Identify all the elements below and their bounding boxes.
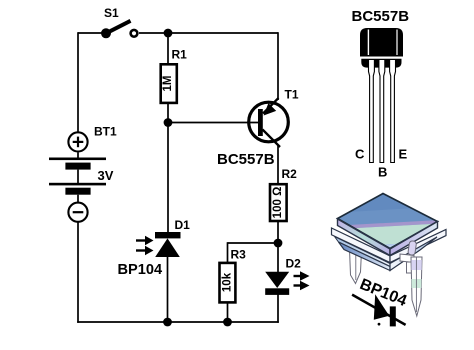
svg-text:10k: 10k <box>222 272 234 292</box>
node junction D1 bottom rail <box>163 318 172 327</box>
node junction R3 bottom rail <box>223 318 232 327</box>
svg-text:R3: R3 <box>231 248 247 262</box>
package leg B <box>379 60 385 163</box>
node junction R1 bottom <box>164 118 173 127</box>
node junction R1 top <box>164 29 173 38</box>
svg-text:T1: T1 <box>285 88 299 102</box>
photo right long leg <box>411 257 422 316</box>
wire left vertical upper <box>77 32 79 132</box>
wire node to D1 <box>167 123 169 233</box>
photodiode symbol on photo <box>352 294 406 326</box>
svg-text:D2: D2 <box>286 257 302 271</box>
wire R1 bottom to node <box>167 103 169 124</box>
resistor R2 <box>270 184 287 221</box>
photodiode D1 <box>136 232 181 257</box>
photo body frustum right <box>390 237 437 271</box>
svg-text:BC557B: BC557B <box>352 8 410 25</box>
svg-text:3V: 3V <box>98 168 114 183</box>
svg-text:BT1: BT1 <box>94 125 117 139</box>
svg-text:C: C <box>355 147 365 162</box>
svg-text:B: B <box>378 165 387 180</box>
LED D2 <box>265 271 309 295</box>
svg-text:1M: 1M <box>162 76 174 92</box>
photo left leg <box>350 249 362 284</box>
photo right stub <box>408 241 417 256</box>
package leg E <box>390 60 396 163</box>
svg-text:E: E <box>399 147 408 162</box>
switch S1 <box>101 21 137 39</box>
wire left vertical lower <box>77 223 79 323</box>
svg-text:R1: R1 <box>172 48 188 62</box>
wire node to R3 horizontal <box>228 242 279 244</box>
resistor R3 <box>220 263 236 303</box>
svg-text:BP104: BP104 <box>118 262 164 278</box>
wire R1 top <box>167 33 169 64</box>
battery BT1 <box>49 132 106 222</box>
wire emitter vertical <box>277 32 279 100</box>
photo rim right <box>390 229 446 262</box>
photo top face <box>330 194 450 263</box>
wire top rail left segment <box>78 32 106 34</box>
svg-text:100 Ω: 100 Ω <box>272 187 284 219</box>
transistor package TO-92 body <box>360 28 403 57</box>
photo right bracket <box>400 254 415 273</box>
wire node to D2 <box>277 243 279 273</box>
wire D1 to bottom rail <box>167 256 169 322</box>
svg-text:R2: R2 <box>282 167 298 181</box>
photo rim left <box>332 228 391 263</box>
node junction R2 bottom <box>274 239 283 248</box>
svg-text:S1: S1 <box>104 6 119 20</box>
wire R3 bottom <box>227 302 229 322</box>
wire base from node to T1 <box>168 122 258 124</box>
wire top rail right segment <box>139 32 278 34</box>
BP104 photo illustration <box>330 194 450 327</box>
svg-text:D1: D1 <box>175 218 191 232</box>
package leg C <box>369 60 375 163</box>
photo lid side walls <box>338 219 391 256</box>
photo body frustum left <box>335 237 391 267</box>
wire bottom rail <box>77 321 279 323</box>
wire R3 top vertical <box>227 242 229 263</box>
wire collector to R2 <box>277 145 279 184</box>
wire D2 to bottom rail <box>277 294 279 323</box>
svg-text:BC557B: BC557B <box>217 151 275 168</box>
resistor R1 <box>161 64 177 103</box>
transistor T1 <box>249 98 289 147</box>
transistor package collar <box>358 58 404 68</box>
wire R2 bottom to node <box>277 221 279 244</box>
